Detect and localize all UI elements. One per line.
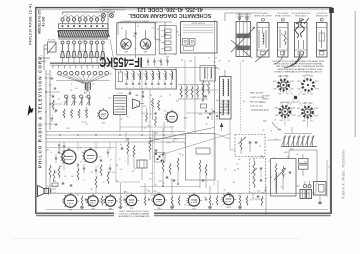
svg-text:61: 61 [214,62,216,64]
svg-text:54: 54 [243,101,245,103]
alignment note IF=455KC (inverted) [99,55,142,70]
antenna input coil L1 [44,40,56,55]
svg-text:54: 54 [47,74,49,76]
svg-text:54: 54 [184,144,186,146]
coupling capacitors lower left [55,142,111,175]
center dense parts 2 [162,158,179,187]
lower left resistors extra [63,150,109,193]
svg-text:TWIN LEAD-IN: TWIN LEAD-IN [295,14,307,17]
svg-text:54: 54 [270,177,272,179]
svg-text:61: 61 [218,69,220,71]
svg-text:CHOOSE STYLE OF REAR CONNECTOR: CHOOSE STYLE OF REAR CONNECTOR PANEL WIT… [272,60,325,63]
svg-text:54: 54 [273,158,275,160]
svg-text:76: 76 [146,190,148,192]
svg-text:≋≋≋≋≋≋≋: ≋≋≋≋≋≋≋ [251,108,269,112]
wire antenna lead [40,45,50,70]
svg-text:.05: .05 [158,199,161,201]
svg-text:PLT: PLT [310,94,313,96]
wire feed to wafer [270,122,292,140]
svg-text:7C6 DET: 7C6 DET [281,102,289,104]
svg-text:ALIGNMENT OF COMPENSATORS: ALIGNMENT OF COMPENSATORS [119,215,150,218]
svg-text:41: 41 [69,78,71,80]
svg-text:19: 19 [110,74,112,76]
svg-text:27: 27 [236,164,238,166]
wire pushbutton to coil bank [108,39,116,70]
svg-text:12: 12 [274,119,276,121]
svg-text:39: 39 [265,179,267,181]
wire horizontal bus upper middle [140,68,218,114]
svg-text:8: 8 [118,108,119,110]
svg-text:6-2: 6-2 [50,95,53,97]
svg-text:76: 76 [220,107,222,109]
svg-text:12: 12 [73,204,75,206]
schematic border frame [36,8,331,214]
svg-text:6: 6 [146,87,147,89]
svg-text:41: 41 [155,184,157,186]
svg-text:IF=455KC: IF=455KC [99,55,142,70]
tuning dial assembly outline [148,134,230,181]
loop aerial coil L2 [114,93,127,115]
svg-text:102: 102 [143,106,146,108]
detector junction cluster [205,108,223,131]
waveband switch detail box [159,26,176,59]
output stage box [271,159,297,197]
svg-text:61: 61 [275,139,277,141]
svg-text:2: 2 [282,20,283,22]
svg-text:19: 19 [122,108,124,110]
svg-text:33-1: 33-1 [278,129,282,131]
svg-text:6: 6 [126,87,127,89]
page edge line [354,11,356,137]
svg-text:33-1: 33-1 [142,113,146,115]
svg-text:50: 50 [82,122,84,124]
svg-text:102: 102 [189,60,192,62]
svg-text:TRIMMERS ON TOP OF CHASSIS: TRIMMERS ON TOP OF CHASSIS [123,20,150,23]
svg-text:DET: DET [291,81,294,83]
svg-text:61: 61 [75,101,77,103]
svg-text:4: 4 [85,122,86,124]
note text phono connection (inverted) [98,6,125,11]
svg-text:6-2: 6-2 [112,172,115,174]
output socket box [314,182,327,202]
svg-text:8: 8 [75,57,76,59]
svg-text:54: 54 [85,124,87,126]
svg-text:.05: .05 [211,204,214,206]
resistor cluster center [121,137,157,168]
svg-text:4: 4 [103,49,104,51]
footer rule [36,215,331,217]
tone control box (dashed) [235,135,265,157]
tube heater diagram V5 7B5 [152,192,165,210]
tube top view V1 7A8 converter [121,30,131,54]
svg-text:76: 76 [184,204,186,206]
svg-text:27: 27 [169,94,171,96]
svg-text:LOOP: LOOP [118,93,124,95]
svg-text:54: 54 [158,110,160,112]
component labels column [250,92,269,113]
svg-text:33-1: 33-1 [90,204,94,206]
svg-text:102: 102 [54,171,57,173]
svg-text:AVC: AVC [284,151,288,154]
svg-text:50: 50 [179,154,181,156]
tube socket layout V5 7B5 [297,102,319,122]
svg-text:76: 76 [162,183,164,185]
tube socket layout V4 7C6 [275,102,297,122]
svg-text:8: 8 [98,166,99,168]
dial lamps I1 I2 [101,9,114,18]
svg-text:8: 8 [135,38,136,40]
svg-text:6: 6 [165,87,166,89]
svg-text:27: 27 [262,157,264,159]
svg-text:39: 39 [95,155,97,157]
svg-text:27: 27 [165,60,167,62]
svg-text:102: 102 [221,114,224,116]
svg-text:.05: .05 [70,90,73,92]
svg-text:41: 41 [263,129,265,131]
tube socket layout V2 7B7 [297,75,320,96]
svg-text:50: 50 [223,190,225,192]
svg-text:6: 6 [139,87,140,89]
svg-text:27: 27 [102,182,104,184]
svg-text:19: 19 [136,95,138,97]
svg-text:AVC: AVC [229,195,233,198]
aerial hookup diagram 1 [254,13,272,57]
svg-text:30: 30 [60,166,62,168]
svg-text:50: 50 [204,197,206,199]
pushbutton switch frame bar (hatched) [58,31,110,40]
svg-text:.05: .05 [79,148,82,150]
svg-text:4: 4 [81,79,82,81]
svg-text:61: 61 [51,121,53,123]
svg-text:76: 76 [88,201,90,203]
svg-text:12: 12 [91,44,93,46]
svg-text:76: 76 [287,156,289,158]
svg-text:4: 4 [321,20,322,22]
svg-text:AVC: AVC [263,120,267,123]
svg-text:39: 39 [53,101,55,103]
svg-text:33-1: 33-1 [257,190,261,192]
svg-text:54: 54 [176,32,178,34]
svg-text:AVC: AVC [227,192,231,195]
svg-text:61: 61 [121,28,123,30]
svg-text:AVC: AVC [290,148,294,151]
speaker plug P1 [303,181,311,188]
svg-text:41-300: 41-300 [42,16,46,26]
svg-text:27: 27 [110,159,112,161]
svg-text:102: 102 [199,114,202,116]
svg-text:12: 12 [150,114,152,116]
svg-text:4: 4 [125,161,126,163]
svg-text:SEE NOTE 6 PAGE 12-42: SEE NOTE 6 PAGE 12-42 [99,6,123,9]
svg-text:76: 76 [238,195,240,197]
svg-text:41: 41 [88,104,90,106]
tube heater diagram V3 7B7 [104,194,116,211]
oscillator sub-chassis box [117,20,156,55]
wire long verticals center [142,68,235,194]
left supply wires [45,70,62,193]
svg-text:AERIAL ALONE: AERIAL ALONE [316,14,329,17]
socket chart connecting lines [285,90,308,127]
svg-text:76: 76 [69,206,71,208]
svg-text:27: 27 [85,93,87,95]
svg-text:AVC: AVC [184,117,188,120]
svg-text:36: 36 [54,181,56,183]
loudspeaker LS1 [38,186,57,197]
aerial diagram 3 internals (twisted pair) [284,18,309,68]
svg-text:PLT: PLT [310,121,313,123]
svg-text:PLT: PLT [287,120,290,122]
band switch wafer S2 [281,134,317,147]
svg-text:54: 54 [91,172,93,174]
aerial hookup diagram 3 [291,13,310,57]
svg-text:39: 39 [77,195,79,197]
svg-text:27: 27 [220,206,222,208]
svg-text:49-2516: 49-2516 [48,40,56,42]
svg-text:30: 30 [82,41,84,43]
svg-text:4: 4 [268,161,269,163]
aerial hookup diagram 2 [275,13,291,57]
svg-text:ABOVE LAYOUT JUMPER POSITIONS: ABOVE LAYOUT JUMPER POSITIONS FOR AERIAL [274,63,324,66]
aerial diagram 4 internals [319,30,326,51]
svg-text:PHILCO RADIO & TELEVISION CORP: PHILCO RADIO & TELEVISION CORP. [37,54,42,168]
svg-text:39: 39 [136,105,138,107]
bottom interstage wires [121,180,263,206]
svg-text:42: 42 [157,29,159,31]
aerial hookup diagram 4 [316,13,329,57]
svg-text:12: 12 [226,105,228,107]
svg-text:12: 12 [181,60,183,62]
svg-text:39: 39 [85,107,87,109]
ground at output [318,201,322,204]
svg-text:6-2: 6-2 [214,68,217,70]
svg-text:6: 6 [158,87,159,89]
svg-text:41: 41 [58,98,60,100]
trimmer row right of banner [147,58,169,66]
field coil [52,181,58,187]
loop area extra parts [129,90,148,122]
svg-text:41: 41 [63,102,65,104]
svg-text:61: 61 [304,162,306,164]
pushbutton plungers [61,41,105,63]
svg-text:PART 30-4519: PART 30-4519 [250,92,264,95]
svg-text:41-255, 41-300, CODE 121: 41-255, 41-300, CODE 121 [137,6,203,12]
audio coupling parts [58,144,102,180]
IF transformer T3 tall can [220,70,232,119]
svg-text:6: 6 [152,87,153,89]
tube V RF amp small circle [97,108,108,125]
svg-text:6-2: 6-2 [99,157,102,159]
svg-text:6-2: 6-2 [85,96,88,98]
svg-text:.05: .05 [170,179,173,181]
title SCHEMATIC DIAGRAM MODEL 41-255 41-300 (inverted) [128,6,211,18]
svg-text:76: 76 [224,169,226,171]
svg-text:PLT: PLT [286,94,289,96]
wire center verticals [185,20,241,133]
svg-text:19: 19 [208,57,210,59]
svg-text:250: 250 [133,36,136,38]
svg-text:50: 50 [120,169,122,171]
svg-text:≋≋≋: ≋≋≋ [260,101,266,104]
svg-text:41: 41 [164,111,166,113]
footer caption block [114,209,154,218]
svg-text:PILOT: PILOT [293,102,298,104]
svg-text:6-2: 6-2 [150,173,153,175]
svg-text:250: 250 [157,60,160,62]
miscellaneous part value labels [46,22,330,208]
svg-text:250: 250 [153,191,156,193]
ground symbols bottom row [80,206,242,209]
svg-text:76: 76 [151,195,153,197]
middle horizontal wires extra [46,127,214,187]
svg-text:12: 12 [178,35,180,37]
svg-text:102: 102 [84,110,87,112]
svg-text:19: 19 [171,203,173,205]
center-left wiring verticals [60,132,155,182]
svg-text:AERIAL USE JUMPER: AERIAL USE JUMPER [254,14,272,17]
wire AVC bus lines [46,110,185,142]
svg-text:31: 31 [137,26,139,28]
svg-text:DET: DET [316,81,319,83]
svg-text:33-1: 33-1 [159,181,163,183]
svg-text:7A8 CONV: 7A8 CONV [279,74,289,77]
svg-text:76: 76 [120,22,122,24]
aerial diagram 1 internals [255,28,268,62]
svg-text:1: 1 [263,20,264,22]
svg-text:4: 4 [178,159,179,161]
svg-text:27: 27 [224,202,226,204]
scan shadow bottom [12,238,300,240]
rectifier section parts [196,148,210,188]
converter grid resistors [150,95,162,126]
svg-text:19: 19 [162,153,164,155]
svg-text:50: 50 [75,88,77,90]
wire output loop [266,150,327,215]
loop matching trapezoid [133,99,145,109]
tube top view V2 7B7 IF amp [140,30,150,54]
pilot socket center dot [293,96,298,105]
cathode resistors bottom row [81,196,248,206]
svg-text:19: 19 [88,99,90,101]
svg-text:27: 27 [155,23,157,25]
caption over IF can [236,13,251,18]
svg-text:76: 76 [82,51,84,53]
svg-text:61: 61 [93,84,95,86]
svg-text:18: 18 [259,146,261,148]
socket chart side label [260,96,271,105]
filter capacitor block [137,160,147,180]
svg-text:50: 50 [297,154,299,156]
svg-text:6-2: 6-2 [216,100,219,102]
dial drive diagonals [149,128,231,156]
svg-text:76: 76 [216,119,218,121]
volume control knot [153,130,166,193]
svg-text:39: 39 [64,176,66,178]
tube heater diagram V7 35Z3 [222,192,234,209]
tube heater diagram V1 7A8 [63,193,77,212]
svg-text:4: 4 [83,180,84,182]
power transformer T4 [300,190,312,199]
tube socket layout V1 7A8 [273,74,295,95]
tube V5 7B5 output [82,148,97,163]
svg-text:7B7 IF: 7B7 IF [305,75,311,77]
svg-text:50: 50 [219,61,221,63]
IF transformer T2 can [231,13,255,63]
svg-text:8: 8 [119,159,120,161]
tube V3 7B8 detector [165,110,178,129]
copyright text John F. Rider Publisher (rotated) [342,149,346,199]
svg-text:27: 27 [101,76,103,78]
svg-text:30: 30 [160,96,162,98]
svg-text:VIEWS: VIEWS [262,98,269,100]
svg-text:PHILCO PAGE 12-41: PHILCO PAGE 12-41 [29,3,33,44]
svg-text:39: 39 [90,189,92,191]
svg-text:41: 41 [54,112,56,114]
station setup chart box [181,22,218,54]
filter resistor blocks [299,154,309,176]
svg-text:76: 76 [205,124,207,126]
svg-text:30: 30 [233,182,235,184]
svg-text:33-1: 33-1 [167,142,171,144]
heater wiring bus [46,193,328,209]
oscillator padder coil bank L5-L13 [116,70,177,90]
svg-text:22: 22 [281,187,283,189]
svg-text:©John F. Rider, Publisher: ©John F. Rider, Publisher [342,149,346,199]
wire top bus to IF can [225,13,258,21]
svg-text:6: 6 [171,87,172,89]
publisher margin text PHILCO RADIO & TELEVISION CORP (rotated) [37,54,42,168]
tube V4 7C6 first audio [60,148,76,164]
svg-text:7B5 OUT: 7B5 OUT [304,102,312,104]
index cursor mark [28,105,34,117]
svg-text:12: 12 [174,54,176,56]
svg-text:6: 6 [133,87,134,89]
svg-text:76: 76 [120,145,122,147]
svg-text:41: 41 [268,140,270,142]
svg-text:12: 12 [134,48,136,50]
tube heater diagram V6 7Y4 [187,193,200,211]
svg-text:27: 27 [182,154,184,156]
svg-text:.05: .05 [151,27,154,29]
svg-text:4: 4 [68,149,69,151]
pushbutton tuner switch S1 [61,12,115,31]
trimmer capacitor row C1-C9 [56,71,110,83]
RF bias resistors [63,109,88,118]
left column components [44,74,57,125]
IF amp plate components [201,80,210,108]
svg-text:12: 12 [103,54,105,56]
svg-text:6-2: 6-2 [149,179,152,181]
svg-text:12: 12 [134,169,136,171]
svg-text:.05: .05 [144,128,147,130]
svg-text:39: 39 [148,191,150,193]
svg-text:6-2: 6-2 [283,174,286,176]
svg-text:30: 30 [132,171,134,173]
svg-text:30: 30 [234,170,236,172]
svg-text:DET: DET [292,108,295,110]
RF coil units with adjusters [64,95,91,106]
svg-text:30: 30 [126,117,128,119]
second IF transformer small can [200,66,216,82]
page header text PHILCO PAGE 12-41 (rotated margin text) [29,3,33,44]
svg-text:54: 54 [80,162,82,164]
svg-text:39: 39 [237,168,239,170]
frame corner mark [329,8,334,13]
pushbutton base bar [50,63,110,68]
svg-text:33: 33 [150,95,152,97]
svg-text:76: 76 [82,152,84,154]
svg-text:30: 30 [173,205,175,207]
note paragraph about aerial selection [272,60,325,73]
